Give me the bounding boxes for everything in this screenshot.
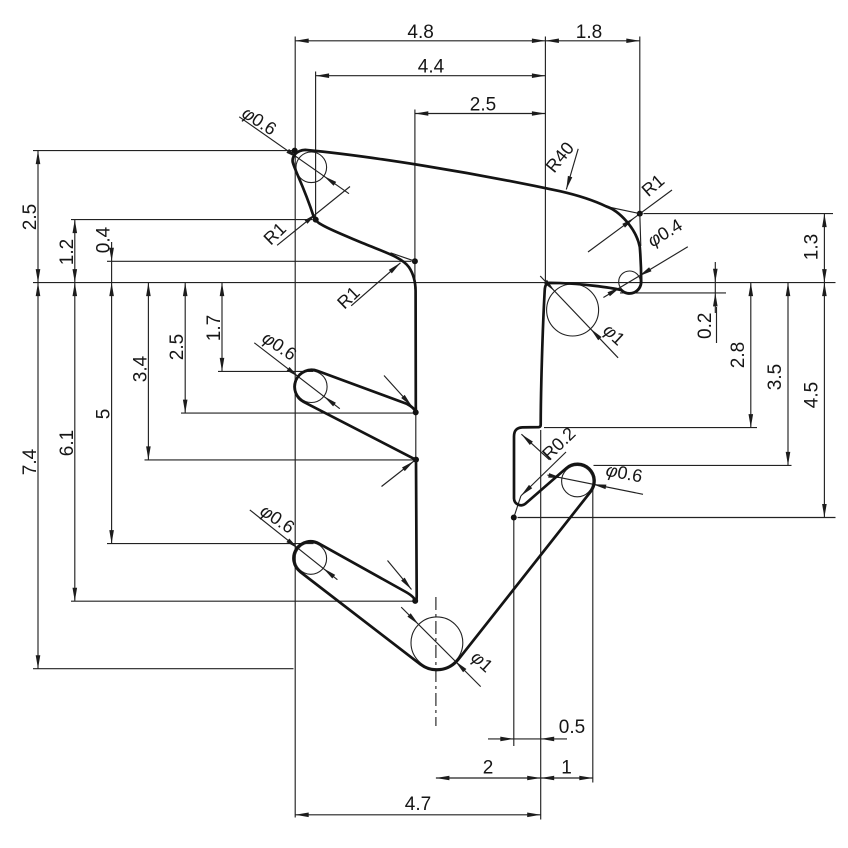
svg-text:1.3: 1.3 <box>801 234 822 260</box>
leader arrow at lower finger fillet <box>388 561 412 590</box>
svg-text:R1: R1 <box>333 282 363 312</box>
leader R1 upper S-curve <box>277 187 350 246</box>
extension line y=-7.4 <box>33 668 294 670</box>
node y=-3.4 reference point <box>413 457 419 463</box>
extension line y=-2.8 right <box>544 427 757 429</box>
dimension 1.2 left <box>74 220 76 283</box>
node R1 head corner point <box>637 211 643 217</box>
extension line x=0 <box>544 37 546 283</box>
leader R1 middle S-curve <box>351 263 400 306</box>
extension line y=-0.2 right <box>620 292 726 294</box>
node y=-6.1 reference point <box>412 598 418 604</box>
svg-text:0.2: 0.2 <box>695 313 716 339</box>
extension line y=-6.1 <box>71 600 413 602</box>
leader R0.2 to upper corner <box>521 434 549 460</box>
dimension 7.4 left <box>37 283 39 669</box>
svg-text:4.4: 4.4 <box>418 57 445 78</box>
extension line y=-3.5 right <box>594 464 792 466</box>
node tip reference point <box>292 148 298 154</box>
leader arrow at middle finger fillet <box>384 376 412 407</box>
svg-text:1.7: 1.7 <box>204 315 225 341</box>
dimension 2.8 right <box>750 283 752 428</box>
leader dia 0.6 right finger <box>547 475 643 494</box>
svg-text:4.5: 4.5 <box>801 382 822 408</box>
leader dia 0.6 top tip <box>239 117 349 194</box>
svg-text:1: 1 <box>561 758 572 779</box>
svg-text:2.5: 2.5 <box>470 95 496 116</box>
gauge circle dia 1 at throat <box>547 284 599 336</box>
leader R0.2 to lower corner (bent through virtual vertex) <box>521 452 566 496</box>
extension line x=513.8 bottom <box>513 520 515 747</box>
svg-text:φ1: φ1 <box>599 320 629 349</box>
gauge circle dia 0.4 at head hook <box>619 271 641 293</box>
extension line x=-2.5 top <box>414 110 416 290</box>
leader dia 1 bottom tip <box>401 607 481 687</box>
extension line x=540.7 bottom <box>540 430 542 820</box>
profile outline (seal cross-section) <box>293 150 642 670</box>
dimension 5 left <box>111 283 113 544</box>
dimension 2 bottom <box>436 777 541 779</box>
svg-text:6.1: 6.1 <box>57 430 78 456</box>
svg-text:R1: R1 <box>260 218 290 248</box>
node y=-4.5 reference point <box>511 515 517 521</box>
svg-text:3.4: 3.4 <box>130 355 151 382</box>
gauge circle dia 1 at bottom tip <box>411 617 463 669</box>
node y=1.2 reference point <box>313 217 319 223</box>
svg-text:2: 2 <box>483 758 494 779</box>
dimension 3.4 left <box>147 283 149 460</box>
dimension 3.5 right <box>787 283 789 466</box>
svg-text:φ1: φ1 <box>467 647 497 676</box>
node y=0.4 reference point <box>412 258 418 264</box>
dimension 2.5 top <box>415 113 546 115</box>
svg-text:φ0.6: φ0.6 <box>259 327 301 364</box>
svg-text:3.5: 3.5 <box>765 364 786 390</box>
datum horizontal centerline <box>33 282 836 284</box>
construction stub at y=0.4 corner <box>391 253 415 261</box>
extension line x tip (full height) <box>294 37 296 818</box>
extension line y=-1.7 <box>218 370 313 372</box>
extension line y=-5 <box>107 543 314 545</box>
extension line y=1.2 <box>71 219 313 221</box>
construction stub to R1 corner <box>606 207 640 214</box>
leader dia 0.6 lower finger <box>250 510 338 580</box>
dimension 2.5 left upper <box>37 151 39 283</box>
leader dia 0.6 middle finger <box>254 343 339 409</box>
svg-text:0.5: 0.5 <box>559 717 585 738</box>
leader R1 head corner <box>588 190 672 252</box>
dimension 1.8 top <box>545 40 639 42</box>
svg-text:φ0.6: φ0.6 <box>604 460 644 487</box>
centerline of bottom circle (dash-dot) <box>435 597 437 726</box>
extension line y=0.4 <box>107 260 412 262</box>
extension line y=-2.5 <box>181 412 413 414</box>
svg-text:2.5: 2.5 <box>167 334 188 360</box>
svg-text:2.8: 2.8 <box>728 342 749 368</box>
extension line y=-3.4 <box>145 459 414 461</box>
dimension 0.5 bottom (outside arrows) <box>488 738 514 740</box>
extension line y=-4.5 right <box>518 517 836 519</box>
gauge circle dia 0.6 at middle finger <box>296 371 328 403</box>
leader arrow at trunk corner <box>382 461 415 487</box>
svg-text:R0.2: R0.2 <box>538 423 579 464</box>
svg-text:5: 5 <box>94 409 115 420</box>
extension line tip top y=2.5 <box>33 150 292 152</box>
dimension 4.4 top <box>316 75 546 77</box>
extension line between finger notches <box>415 412 417 459</box>
extension line x=592.8 bottom <box>592 489 594 783</box>
dimension 4.5 right <box>823 283 825 518</box>
extension line x=-4.4 <box>315 72 317 219</box>
dimension 0.4 left <box>111 242 113 261</box>
dimension 1 bottom <box>541 777 593 779</box>
dimension 0.2 right <box>714 262 716 282</box>
leader dia 0.4 head hook <box>603 247 687 298</box>
gauge circle dia 0.6 at lower finger <box>295 543 327 575</box>
svg-text:4.7: 4.7 <box>405 794 431 815</box>
leader dia 1 throat <box>540 276 618 358</box>
gauge circle dia 0.6 at right finger <box>562 465 593 496</box>
dimension 2.5 left lower <box>184 283 186 414</box>
gauge circle dia 0.6 at top tip <box>296 152 327 183</box>
dimension 1.3 right <box>823 214 825 283</box>
svg-text:1.8: 1.8 <box>576 22 602 43</box>
svg-text:1.2: 1.2 <box>57 239 78 265</box>
extension line y=1.3 right <box>644 213 834 215</box>
svg-text:2.5: 2.5 <box>20 204 41 230</box>
dimension 6.1 left <box>74 283 76 602</box>
leader R40 top edge <box>566 149 578 190</box>
extension line x=1.8 <box>639 37 641 214</box>
dimension 1.7 left <box>221 283 223 372</box>
svg-text:0.4: 0.4 <box>94 226 115 253</box>
svg-text:φ0.6: φ0.6 <box>238 103 280 140</box>
dimension 4.7 bottom <box>295 814 541 816</box>
svg-text:4.8: 4.8 <box>407 22 433 43</box>
svg-text:φ0.4: φ0.4 <box>644 215 686 251</box>
dimension 4.8 top <box>295 40 545 42</box>
svg-text:7.4: 7.4 <box>20 448 41 475</box>
svg-text:R40: R40 <box>542 138 578 176</box>
construction stub R1 corner down <box>640 214 641 246</box>
node y=-2.5 reference point <box>413 409 419 415</box>
